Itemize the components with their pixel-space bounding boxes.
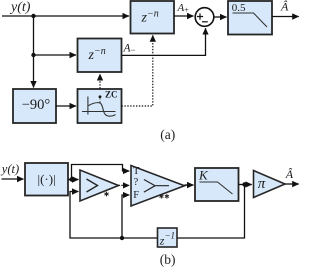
wire dotted ZC right and up to upper z^-n [122,35,153,106]
svg-text:(a): (a) [160,127,175,142]
absolute value block [25,163,68,196]
svg-text:−90°: −90° [22,97,51,113]
wire A- to summer minus input [122,28,206,55]
wire dotted ZC up to lower z^-n [99,74,101,89]
label * footnote [104,192,108,197]
wire K to pi gain [239,184,252,186]
wire z^-n to summer [174,15,194,17]
gain lowpass block K [195,168,239,202]
wire vertical down to -90 block [33,16,35,88]
svg-text:T: T [133,166,140,177]
wire output A-hat [272,16,299,18]
zero-crossing detector block ZC [78,89,122,123]
comparator triangle [80,170,119,201]
svg-text:Â: Â [285,167,294,181]
svg-text:y(t): y(t) [0,162,19,176]
svg-text:0.5: 0.5 [232,2,246,14]
wire dotted comparator to selector ? input [119,184,130,186]
wire over comparator to selector T input [72,165,130,180]
svg-text:A+: A+ [177,2,190,15]
summer plus sign [197,13,203,19]
wire summer to filter 0.5 [214,16,227,18]
delay block z^-1 [158,228,178,247]
node junction dot at input split [31,14,35,18]
phase shifter block -90 [13,89,56,123]
wire abs to comparator [68,179,79,181]
svg-text:y(t): y(t) [9,0,31,15]
wire y(t) to abs block [2,178,24,180]
wire output A-hat (b) [285,183,299,185]
wire feedback branch up to selector F input [122,195,129,238]
wire y(t) to delay block z^-n top [2,15,129,17]
node junction dot feedback tap [242,182,246,186]
svg-text:(b): (b) [160,252,176,267]
wire -90 to ZC [56,105,76,107]
svg-text:ZC: ZC [105,90,118,100]
delay block z^-n upper [131,1,175,34]
node junction dot feedback branch [120,236,124,240]
selector triangle T?F [131,166,185,207]
summer minus sign [202,21,208,23]
summer U1 circle [195,8,214,27]
gain triangle pi [254,171,286,198]
wire junction to delay block z^-n lower [34,54,77,56]
wire feedback down from tap to delay z^-1 [177,185,245,239]
svg-text:A−: A− [123,43,136,55]
svg-text:F: F [133,190,139,201]
svg-text:?: ? [134,177,139,188]
svg-text:π: π [258,176,266,192]
wire feedback left and up to comparator lower input [70,192,158,239]
delay block z^-n lower [78,39,122,73]
label ** footnote [159,194,169,199]
svg-text:K: K [198,168,209,183]
filter block 0.5 lowpass [228,1,272,35]
node junction dot after abs [69,177,73,181]
svg-text:Â: Â [280,0,289,14]
node junction dot row2 [31,53,35,57]
wire selector to gain K [185,184,194,186]
svg-text:|(·)|: |(·)| [38,171,56,186]
